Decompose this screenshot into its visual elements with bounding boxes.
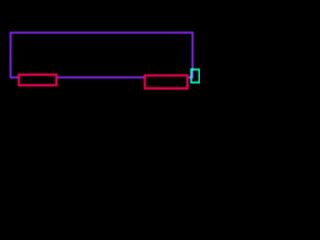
wire: purple net loop — [11, 33, 193, 78]
capacitor C1 — [191, 70, 199, 83]
resistor R2 — [145, 75, 188, 88]
resistor R1 — [19, 75, 57, 86]
